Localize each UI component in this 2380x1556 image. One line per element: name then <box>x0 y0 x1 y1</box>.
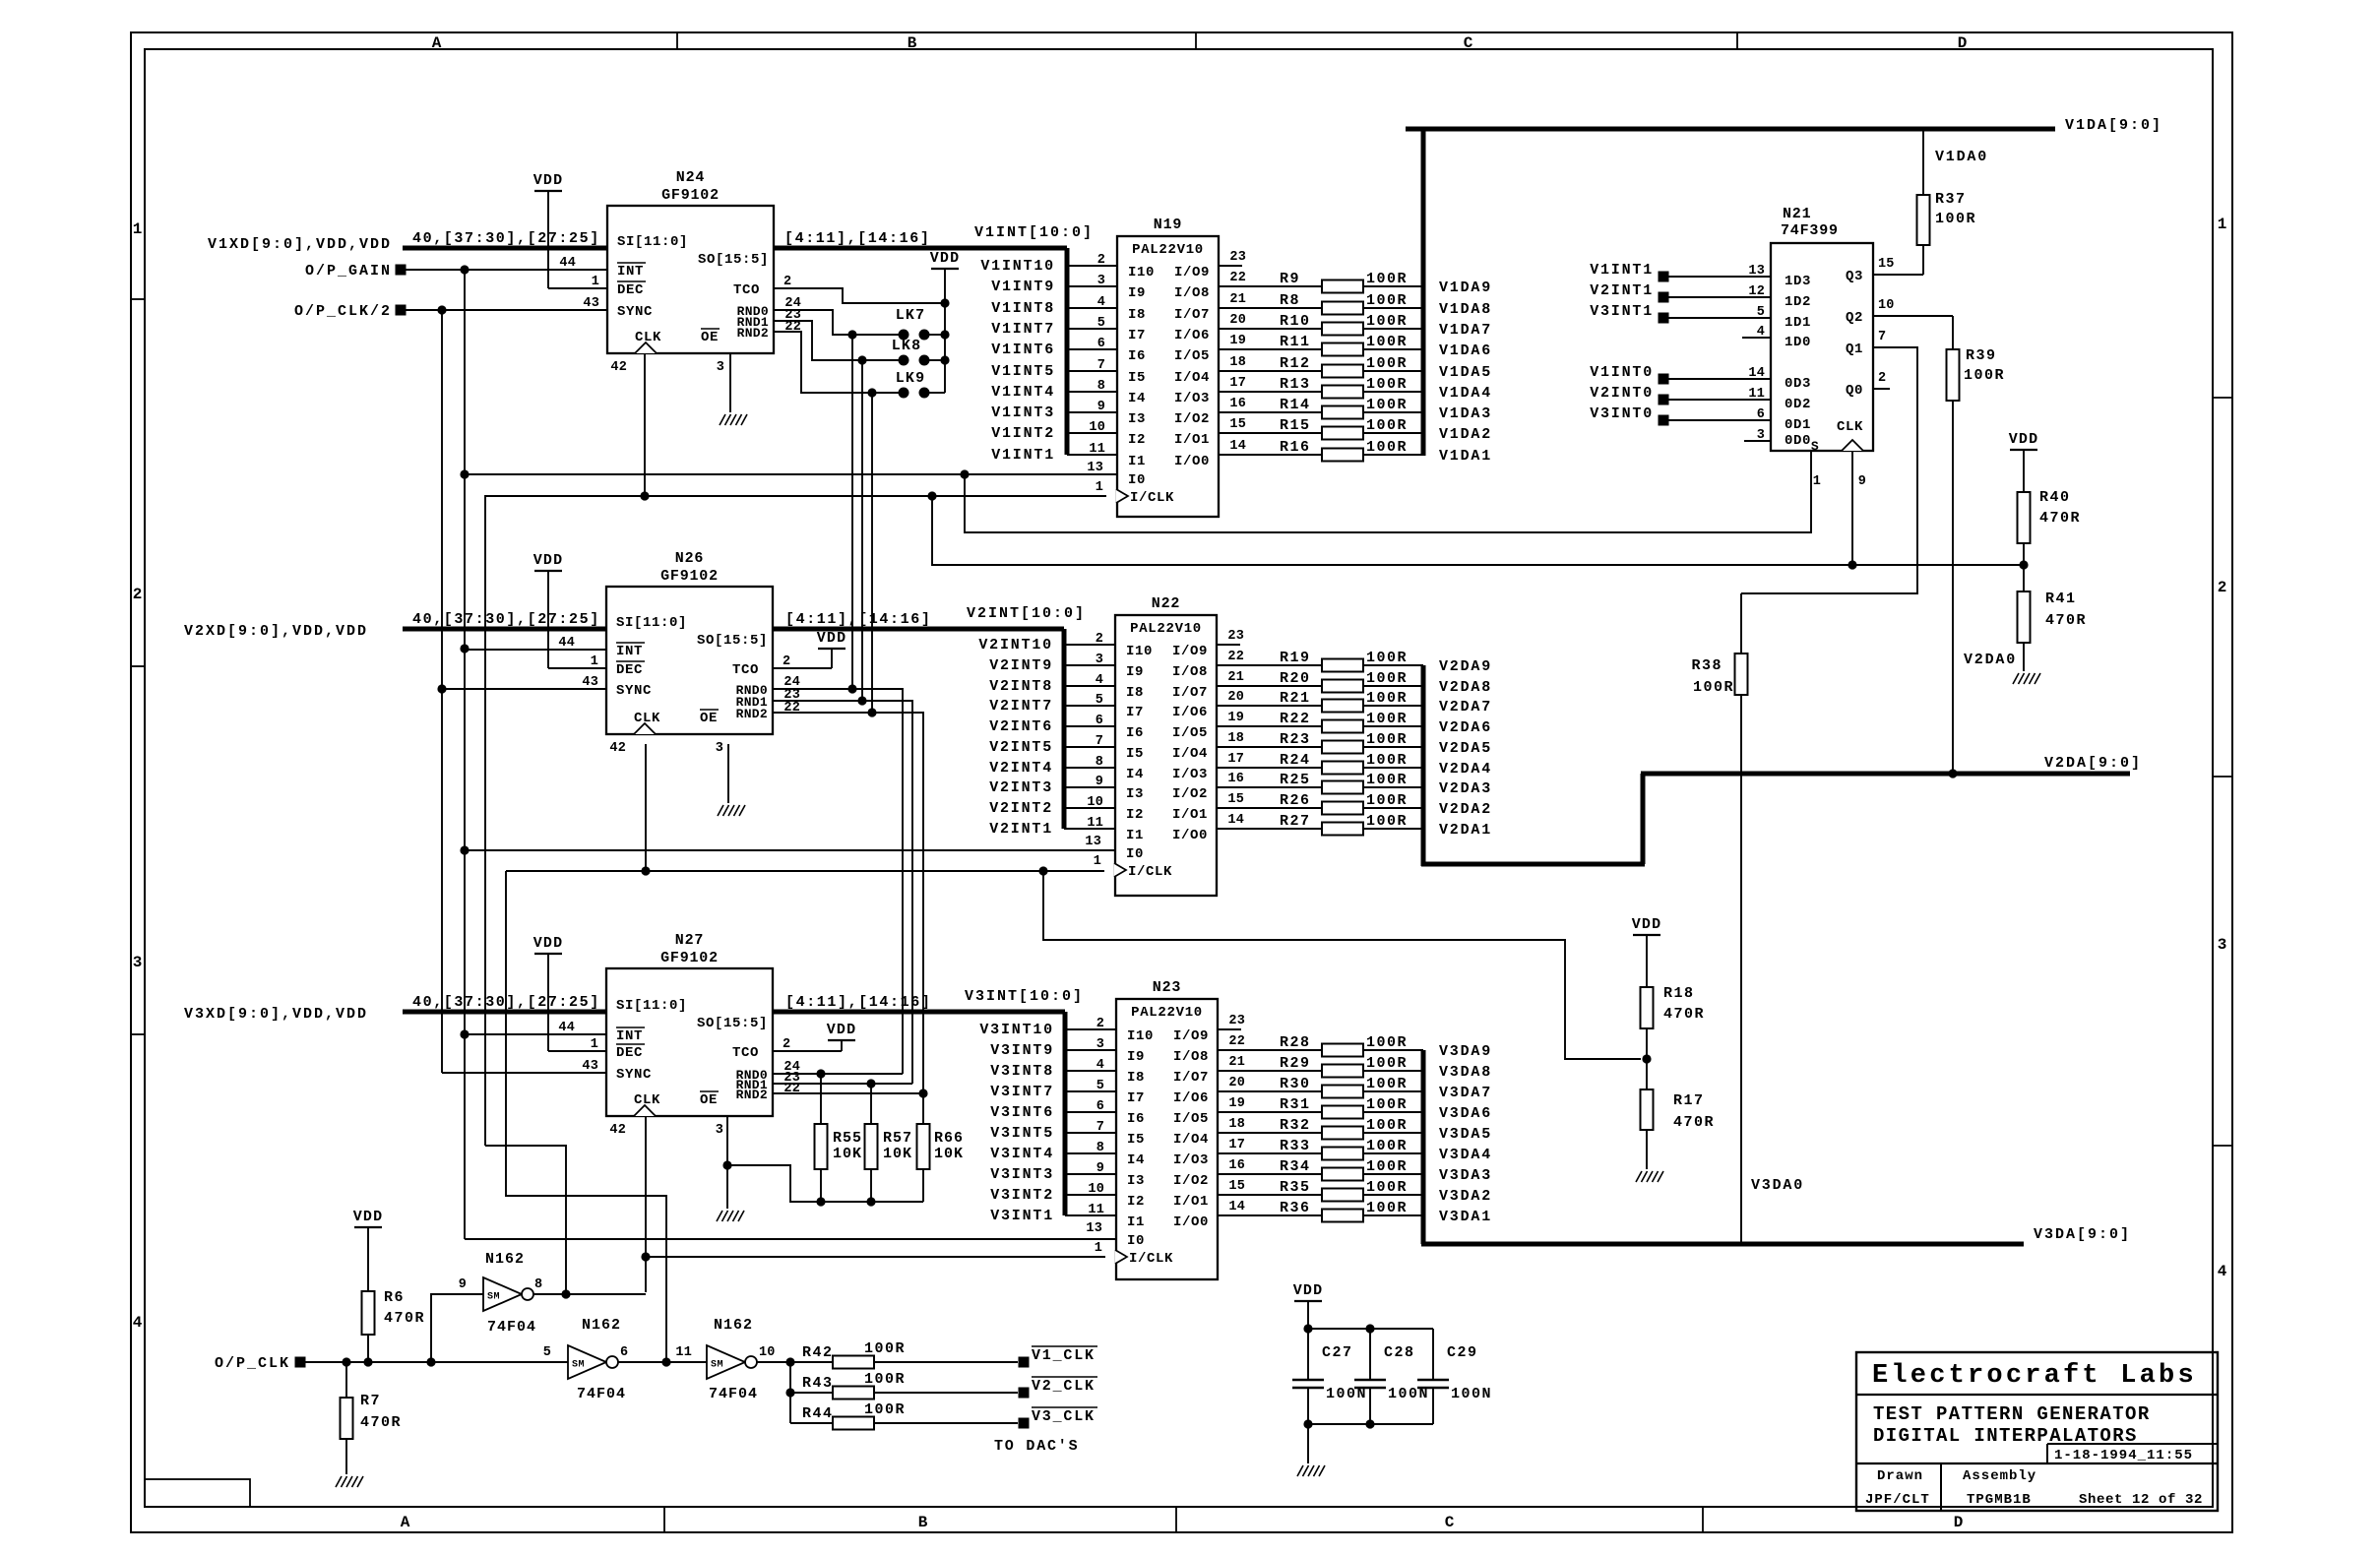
resistor R17 470R <box>1641 1089 1716 1169</box>
svg-text:100R: 100R <box>1366 334 1408 350</box>
resistor R41 470R <box>2018 565 2088 671</box>
wires V2INT bus stubs to N22 <box>1064 645 1115 829</box>
svg-text:1-18-1994_11:55: 1-18-1994_11:55 <box>2054 1448 2193 1463</box>
svg-text:V2DA5: V2DA5 <box>1439 740 1492 757</box>
resistor R28 100R <box>1218 1034 1423 1057</box>
svg-text:LK7: LK7 <box>896 307 926 324</box>
svg-text:14: 14 <box>1229 439 1246 454</box>
svg-text:I/O7: I/O7 <box>1174 307 1210 323</box>
svg-text:I1: I1 <box>1126 828 1144 843</box>
svg-text:N27: N27 <box>675 932 704 949</box>
svg-text:A: A <box>401 1514 411 1531</box>
svg-text:R26: R26 <box>1280 792 1311 809</box>
svg-text:I/O3: I/O3 <box>1174 391 1210 406</box>
svg-text:V1INT6: V1INT6 <box>991 342 1055 358</box>
wire N22 I/O9 pin 23 stub <box>1217 644 1240 646</box>
svg-text:V3INT1: V3INT1 <box>990 1208 1054 1224</box>
svg-text:10: 10 <box>759 1345 776 1360</box>
wire N23 I/CLK pin 1 <box>646 1256 1105 1258</box>
svg-text:16: 16 <box>1229 397 1246 411</box>
net label V1DA0 <box>1935 149 1988 165</box>
svg-text:1: 1 <box>133 220 144 238</box>
svg-text:I/O6: I/O6 <box>1174 328 1210 343</box>
svg-text:2: 2 <box>1878 371 1886 386</box>
node V3INT0 input to N21 <box>1590 405 1771 426</box>
resistor R36 100R <box>1218 1200 1423 1222</box>
resistor R22 100R <box>1217 711 1423 733</box>
svg-text:V2XD[9:0],VDD,VDD: V2XD[9:0],VDD,VDD <box>184 623 368 640</box>
svg-text:R41: R41 <box>2045 591 2077 607</box>
svg-text:DEC: DEC <box>616 662 643 678</box>
wire N21 0D0 pin 3 stub <box>1744 440 1771 442</box>
wire CLK2 riser from inverter2 <box>506 871 671 1367</box>
bus branch label [4:11],[14:16] (N27) <box>785 994 931 1011</box>
svg-text:15: 15 <box>1229 417 1246 432</box>
svg-text:SI[11:0]: SI[11:0] <box>616 615 687 631</box>
svg-text:470R: 470R <box>384 1310 425 1327</box>
resistor R33 100R <box>1218 1138 1423 1160</box>
svg-text:RND2: RND2 <box>736 707 768 721</box>
svg-text:R13: R13 <box>1280 376 1311 393</box>
net labels V3DA9-V3DA1 <box>1439 1043 1492 1225</box>
svg-text:V1DA3: V1DA3 <box>1439 405 1492 422</box>
svg-text:Assembly: Assembly <box>1963 1468 2036 1484</box>
IC N19 PAL22V10 <box>1087 217 1246 517</box>
svg-text:I7: I7 <box>1126 705 1144 720</box>
svg-text:44: 44 <box>559 256 576 271</box>
svg-text:V2DA1: V2DA1 <box>1439 822 1492 839</box>
svg-text:100R: 100R <box>1366 355 1408 372</box>
net label V2DA0 <box>1964 652 2017 668</box>
svg-text:V2INT6: V2INT6 <box>989 718 1053 735</box>
wire VDD to N27 DEC pin 1 <box>548 1050 606 1052</box>
svg-text:V2DA0: V2DA0 <box>1964 652 2017 668</box>
svg-text:PAL22V10: PAL22V10 <box>1132 242 1204 258</box>
svg-text:V1INT2: V1INT2 <box>991 425 1055 442</box>
svg-text:VDD: VDD <box>533 935 564 952</box>
wire cap bottom rail <box>1303 1419 1433 1428</box>
wire net O/P_GAIN vertical (feeds INT/I0 pins) <box>460 270 469 1239</box>
svg-text:3: 3 <box>2218 936 2228 954</box>
ground (N24 OE pin 3) <box>720 353 747 425</box>
svg-text:470R: 470R <box>1663 1006 1705 1023</box>
svg-text:R16: R16 <box>1280 439 1311 456</box>
svg-text:1: 1 <box>1095 1241 1102 1256</box>
svg-text:8: 8 <box>534 1277 542 1292</box>
svg-text:17: 17 <box>1227 752 1244 767</box>
svg-text:V3DA1: V3DA1 <box>1439 1209 1492 1225</box>
svg-text:V3DA2: V3DA2 <box>1439 1188 1492 1205</box>
svg-text:100R: 100R <box>1366 772 1408 788</box>
svg-text:I/O4: I/O4 <box>1173 1132 1209 1148</box>
svg-text:V1DA6: V1DA6 <box>1439 342 1492 359</box>
svg-text:100R: 100R <box>1366 397 1408 413</box>
svg-text:13: 13 <box>1086 1221 1102 1236</box>
svg-text:V3INT7: V3INT7 <box>990 1084 1054 1100</box>
svg-text:I6: I6 <box>1126 725 1144 741</box>
bus SO output N24 to V1INT <box>774 248 1067 455</box>
svg-text:V1DA4: V1DA4 <box>1439 385 1492 402</box>
wire O/P_CLK/2 to N26 SYNC pin 43 <box>442 688 606 690</box>
svg-text:0D0: 0D0 <box>1785 433 1811 449</box>
svg-text:N24: N24 <box>676 169 705 186</box>
svg-text:V1DA1: V1DA1 <box>1439 448 1492 465</box>
svg-text:3: 3 <box>133 954 144 971</box>
wire net RND0 (N24 pin 24 to LK7, N26, N27) <box>774 310 899 689</box>
svg-text:SO[15:5]: SO[15:5] <box>698 252 769 268</box>
svg-text:CLK: CLK <box>635 330 661 345</box>
svg-text:I0: I0 <box>1126 846 1144 862</box>
wire cap top rail <box>1303 1324 1433 1333</box>
svg-text:V1DA7: V1DA7 <box>1439 322 1492 339</box>
svg-text:R6: R6 <box>384 1289 405 1306</box>
svg-text:V2INT1: V2INT1 <box>989 821 1053 838</box>
svg-text:2: 2 <box>133 586 144 603</box>
svg-text:I10: I10 <box>1126 644 1153 659</box>
svg-text:VDD: VDD <box>533 172 564 189</box>
svg-text:SYNC: SYNC <box>616 1067 652 1083</box>
node V1INT1 input to N21 <box>1590 262 1771 282</box>
svg-text:V1DA2: V1DA2 <box>1439 426 1492 443</box>
svg-text:S: S <box>1811 439 1819 454</box>
resistor R14 100R <box>1219 397 1423 419</box>
svg-text:SYNC: SYNC <box>616 683 652 699</box>
svg-text:40,[37:30],[27:25]: 40,[37:30],[27:25] <box>412 611 600 628</box>
wires V3INT bus stubs to N23 <box>1065 1029 1116 1215</box>
svg-text:I/O1: I/O1 <box>1174 432 1210 448</box>
bus branch label [4:11],[14:16] (N26) <box>785 611 931 628</box>
node O/P_CLK terminal <box>215 1355 306 1372</box>
resistor R9 100R <box>1219 271 1423 293</box>
IC N21 74F399 <box>1748 206 1894 489</box>
svg-text:N162: N162 <box>485 1251 525 1268</box>
resistor R43 100R <box>790 1371 1018 1400</box>
svg-text:N26: N26 <box>675 550 704 567</box>
wire VDD to N26 DEC pin 1 <box>548 667 606 669</box>
svg-text:1D3: 1D3 <box>1785 274 1811 289</box>
svg-text:40,[37:30],[27:25]: 40,[37:30],[27:25] <box>412 230 600 247</box>
wire N19 I/O9 pin 23 stub <box>1219 265 1242 267</box>
svg-text:19: 19 <box>1229 334 1246 348</box>
svg-text:B: B <box>918 1514 929 1531</box>
svg-text:43: 43 <box>583 296 599 311</box>
svg-text:R55: R55 <box>833 1130 862 1147</box>
svg-text:I/CLK: I/CLK <box>1130 490 1174 506</box>
svg-text:OE: OE <box>700 1092 718 1108</box>
svg-text:21: 21 <box>1227 670 1244 685</box>
svg-text:O/P_GAIN: O/P_GAIN <box>305 263 392 280</box>
resistor R38 100R <box>1691 593 1747 1244</box>
svg-text:I10: I10 <box>1127 1028 1154 1044</box>
svg-text:V1INT7: V1INT7 <box>991 321 1055 338</box>
wire N26 CLK pin 42 <box>645 744 647 871</box>
resistor R42 100R <box>802 1340 1018 1369</box>
svg-text:18: 18 <box>1228 1117 1245 1132</box>
svg-text:B: B <box>908 34 918 52</box>
svg-text:[4:11],[14:16]: [4:11],[14:16] <box>784 230 930 247</box>
svg-text:SO[15:5]: SO[15:5] <box>697 1016 768 1031</box>
svg-text:7: 7 <box>1878 330 1886 344</box>
svg-text:100R: 100R <box>1366 690 1408 707</box>
svg-text:I/O5: I/O5 <box>1174 348 1210 364</box>
svg-text:100R: 100R <box>1366 271 1408 287</box>
net label V3INT[10:0] <box>965 988 1084 1005</box>
svg-text:3: 3 <box>716 741 723 756</box>
svg-text:TEST PATTERN GENERATOR: TEST PATTERN GENERATOR <box>1873 1403 2151 1425</box>
wire net RND2 (N24 pin 22 to LK9, N26, N27) <box>774 332 899 713</box>
svg-text:100R: 100R <box>1366 1117 1408 1134</box>
svg-text:I/O0: I/O0 <box>1172 828 1208 843</box>
svg-text:40,[37:30],[27:25]: 40,[37:30],[27:25] <box>412 994 600 1011</box>
svg-text:42: 42 <box>609 1123 626 1138</box>
svg-text:V3DA7: V3DA7 <box>1439 1085 1492 1101</box>
svg-text:N19: N19 <box>1154 217 1182 233</box>
net labels V1DA9-V1DA1 <box>1439 280 1492 465</box>
bus V2XD SI input N26 with label 40,[37:30],[27:25] <box>403 611 606 629</box>
svg-text:I2: I2 <box>1126 807 1144 823</box>
wire N26 RND0 pin 24 <box>773 684 903 1074</box>
node V1INT0 input to N21 <box>1590 364 1771 385</box>
wire O/P_CLK/2 to N24 SYNC pin 43 <box>406 305 607 314</box>
svg-text:0D2: 0D2 <box>1785 397 1811 412</box>
wire N21 Q3 pin 15 to R37 <box>1873 274 1923 276</box>
svg-text:GF9102: GF9102 <box>661 187 720 204</box>
bus SO output N26 to V2INT <box>773 629 1064 829</box>
svg-text:SM: SM <box>487 1292 500 1303</box>
power VDD (R6) <box>353 1209 384 1291</box>
svg-text:1D0: 1D0 <box>1785 335 1811 350</box>
svg-text:R29: R29 <box>1280 1055 1311 1072</box>
svg-text:3: 3 <box>716 1123 723 1138</box>
svg-text:23: 23 <box>1228 1014 1245 1028</box>
svg-text:R30: R30 <box>1280 1076 1311 1092</box>
svg-text:100R: 100R <box>1366 1179 1408 1196</box>
svg-text:V2INT10: V2INT10 <box>978 637 1053 654</box>
svg-text:TCO: TCO <box>732 662 759 678</box>
svg-text:C28: C28 <box>1384 1344 1415 1361</box>
svg-text:VDD: VDD <box>353 1209 384 1225</box>
node V2_CLK output <box>1019 1377 1098 1399</box>
svg-text:V2_CLK: V2_CLK <box>1032 1378 1096 1395</box>
svg-text:100N: 100N <box>1451 1386 1492 1402</box>
svg-text:R14: R14 <box>1280 397 1311 413</box>
svg-text:CLK: CLK <box>634 1092 660 1108</box>
resistor R18 470R <box>1641 985 1706 1089</box>
svg-text:100R: 100R <box>1366 1076 1408 1092</box>
svg-text:V3INT9: V3INT9 <box>990 1042 1054 1059</box>
svg-text:I9: I9 <box>1128 285 1146 301</box>
svg-text:N21: N21 <box>1783 206 1811 222</box>
IC N24 GF9102 <box>559 169 801 375</box>
svg-text:I3: I3 <box>1128 411 1146 427</box>
svg-text:Q0: Q0 <box>1846 383 1863 399</box>
svg-text:N162: N162 <box>582 1317 621 1334</box>
resistor R19 100R <box>1217 650 1423 672</box>
resistor R24 100R <box>1217 752 1423 775</box>
svg-text:SM: SM <box>572 1360 585 1371</box>
svg-text:V2INT0: V2INT0 <box>1590 385 1654 402</box>
svg-text:20: 20 <box>1227 690 1244 705</box>
svg-text:R22: R22 <box>1280 711 1311 727</box>
svg-text:JPF/CLT: JPF/CLT <box>1865 1492 1930 1508</box>
svg-text:R40: R40 <box>2039 489 2071 506</box>
svg-text:R28: R28 <box>1280 1034 1311 1051</box>
ground (R41) <box>2013 673 2040 684</box>
svg-text:V3DA4: V3DA4 <box>1439 1147 1492 1163</box>
svg-text:V1INT9: V1INT9 <box>991 279 1055 295</box>
svg-text:470R: 470R <box>2045 612 2087 629</box>
svg-text:1: 1 <box>2218 216 2228 233</box>
svg-text:I1: I1 <box>1128 454 1146 469</box>
svg-text:R43: R43 <box>802 1375 834 1392</box>
IC N27 GF9102 <box>558 932 800 1138</box>
svg-text:I2: I2 <box>1127 1194 1145 1210</box>
svg-text:R38: R38 <box>1691 657 1722 674</box>
resistor R32 100R <box>1218 1117 1423 1140</box>
IC N22 PAL22V10 <box>1085 595 1244 896</box>
svg-text:I/O8: I/O8 <box>1172 664 1208 680</box>
svg-text:470R: 470R <box>360 1414 402 1431</box>
svg-text:14: 14 <box>1228 1200 1245 1214</box>
svg-text:Q3: Q3 <box>1846 269 1863 284</box>
net label V3XD bus <box>184 1006 368 1023</box>
wire N24 TCO pin 2 to VDD <box>774 288 950 308</box>
net label V1INT[10:0] <box>974 224 1094 241</box>
power VDD (R40) <box>2009 431 2039 492</box>
svg-text:V3DA0: V3DA0 <box>1751 1177 1804 1194</box>
ground (C27-C29) <box>1297 1424 1325 1476</box>
svg-text:V1INT8: V1INT8 <box>991 300 1055 317</box>
svg-text:R18: R18 <box>1663 985 1695 1002</box>
svg-text:Electrocraft Labs: Electrocraft Labs <box>1872 1361 2197 1391</box>
svg-text:VDD: VDD <box>2009 431 2039 448</box>
bus V3XD SI input N27 with label 40,[37:30],[27:25] <box>403 994 606 1012</box>
svg-text:R32: R32 <box>1280 1117 1311 1134</box>
wire N21 Q2 pin 10 to R39 <box>1873 315 1953 317</box>
svg-text:I7: I7 <box>1128 328 1146 343</box>
svg-text:GF9102: GF9102 <box>660 568 719 585</box>
resistor R12 100R <box>1219 355 1423 378</box>
resistor R34 100R <box>1218 1158 1423 1181</box>
svg-text:I5: I5 <box>1128 370 1146 386</box>
svg-text:I0: I0 <box>1127 1233 1145 1249</box>
svg-text:19: 19 <box>1228 1096 1245 1111</box>
svg-text:C27: C27 <box>1322 1344 1353 1361</box>
svg-text:V3DA[9:0]: V3DA[9:0] <box>2034 1226 2131 1243</box>
wire N27 RND1 pin 23 <box>773 1079 912 1088</box>
inverter N162A 74F04 pins 9-8 <box>459 1251 543 1336</box>
svg-text:D: D <box>1954 1514 1965 1531</box>
resistor R20 100R <box>1217 670 1423 693</box>
svg-text:V2INT8: V2INT8 <box>989 678 1053 695</box>
svg-text:V3INT0: V3INT0 <box>1590 405 1654 422</box>
wire N22 I0 pin 13 from O/P_GAIN <box>465 849 1115 851</box>
svg-text:I/O4: I/O4 <box>1174 370 1210 386</box>
svg-text:V1INT10: V1INT10 <box>980 258 1055 275</box>
svg-text:6: 6 <box>620 1345 628 1360</box>
svg-text:I/O7: I/O7 <box>1173 1070 1209 1086</box>
svg-text:15: 15 <box>1228 1179 1245 1194</box>
svg-text:V1DA5: V1DA5 <box>1439 364 1492 381</box>
svg-text:V3INT10: V3INT10 <box>979 1022 1054 1038</box>
svg-text:100R: 100R <box>1366 417 1408 434</box>
node V1_CLK output <box>1019 1346 1098 1368</box>
resistor R11 100R <box>1219 334 1423 356</box>
svg-text:SI[11:0]: SI[11:0] <box>617 234 688 250</box>
ground (N27 OE pin 3) <box>717 1116 744 1221</box>
svg-text:TO DAC'S: TO DAC'S <box>994 1438 1079 1455</box>
wire O/P_CLK/2 to N27 SYNC pin 43 <box>442 1072 606 1074</box>
svg-text:100R: 100R <box>864 1371 906 1388</box>
svg-text:I10: I10 <box>1128 265 1155 280</box>
resistor R29 100R <box>1218 1055 1423 1078</box>
svg-text:CLK: CLK <box>634 711 660 726</box>
svg-text:A: A <box>432 34 443 52</box>
svg-text:R8: R8 <box>1280 292 1300 309</box>
svg-text:VDD: VDD <box>930 250 961 267</box>
resistor R6 470R <box>362 1289 426 1362</box>
svg-text:I/O5: I/O5 <box>1172 725 1208 741</box>
svg-text:100R: 100R <box>1366 1096 1408 1113</box>
svg-text:Q1: Q1 <box>1846 342 1863 357</box>
bus V3DA[9:0] <box>1421 1050 2131 1244</box>
svg-text:100R: 100R <box>1366 1158 1408 1175</box>
wire CLK riser to inverter output <box>485 1146 566 1292</box>
svg-text:I7: I7 <box>1127 1090 1145 1106</box>
bus V1DA[9:0] <box>1406 117 2162 456</box>
net label V1XD bus <box>208 236 392 253</box>
svg-text:I3: I3 <box>1126 786 1144 802</box>
svg-text:100R: 100R <box>1366 1055 1408 1072</box>
svg-text:I/O9: I/O9 <box>1172 644 1208 659</box>
wire R43 branch <box>785 1362 794 1423</box>
svg-text:Sheet 12 of 32: Sheet 12 of 32 <box>2079 1492 2203 1508</box>
wire inverter1 input from O/P_CLK <box>431 1294 483 1362</box>
wire N27 CLK pin 42 <box>641 1116 650 1292</box>
svg-text:I3: I3 <box>1127 1173 1145 1189</box>
resistor R57 10K <box>865 1084 913 1202</box>
resistor R31 100R <box>1218 1096 1423 1119</box>
svg-text:R37: R37 <box>1935 191 1967 208</box>
svg-text:LK9: LK9 <box>896 370 926 387</box>
svg-text:N22: N22 <box>1152 595 1180 612</box>
svg-text:43: 43 <box>582 1059 598 1074</box>
svg-text:R36: R36 <box>1280 1200 1311 1216</box>
svg-text:INT: INT <box>616 644 643 659</box>
wire inverter2 output <box>618 1361 707 1363</box>
svg-text:I9: I9 <box>1127 1049 1145 1065</box>
svg-text:R19: R19 <box>1280 650 1311 666</box>
svg-text:V3DA5: V3DA5 <box>1439 1126 1492 1143</box>
svg-text:V1XD[9:0],VDD,VDD: V1XD[9:0],VDD,VDD <box>208 236 392 253</box>
svg-text:100R: 100R <box>1366 1138 1408 1154</box>
wire CLK terminator branch <box>1043 871 1652 1064</box>
svg-text:100R: 100R <box>1366 813 1408 830</box>
wire R55/R57/R66 common rail to OE <box>727 1165 923 1207</box>
svg-text:OE: OE <box>700 711 718 726</box>
jumper LK8 <box>892 338 950 366</box>
svg-text:74F04: 74F04 <box>577 1386 626 1402</box>
svg-text:I5: I5 <box>1126 746 1144 762</box>
svg-text:OE: OE <box>701 330 719 345</box>
bus V1XD SI input N24 with label 40,[37:30],[27:25] <box>403 230 607 248</box>
svg-text:16: 16 <box>1228 1158 1245 1173</box>
svg-text:I6: I6 <box>1127 1111 1145 1127</box>
net labels V2INT10-V2INT1 <box>978 637 1053 838</box>
svg-text:V3DA3: V3DA3 <box>1439 1167 1492 1184</box>
wire N26 RND2 pin 22 <box>773 708 923 1093</box>
svg-text:C: C <box>1464 34 1474 52</box>
